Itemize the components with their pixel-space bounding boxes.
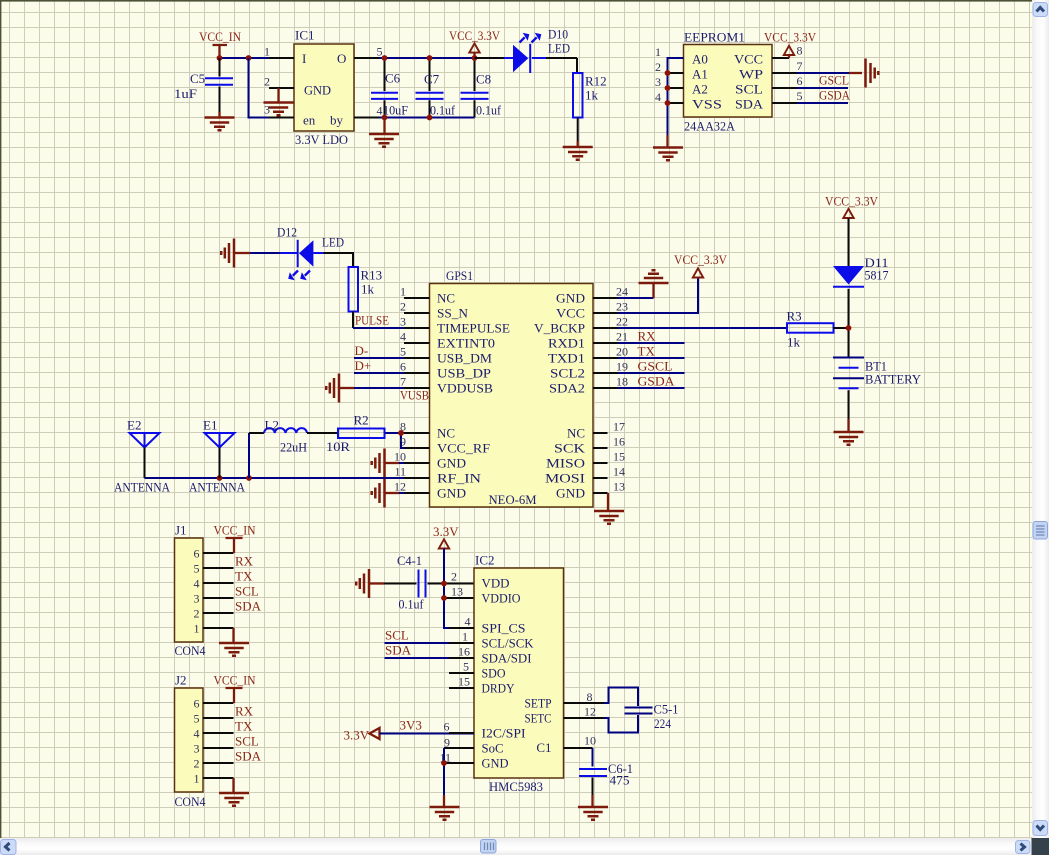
svg-text:VDD: VDD <box>482 576 510 591</box>
svg-text:5: 5 <box>377 45 383 59</box>
svg-text:SDA: SDA <box>235 599 262 614</box>
svg-text:1k: 1k <box>361 282 375 297</box>
ground under gps pin13 <box>594 493 624 524</box>
svg-text:22: 22 <box>616 315 628 329</box>
junction <box>246 55 252 61</box>
svg-text:8: 8 <box>587 690 593 704</box>
svg-text:SPI_CS: SPI_CS <box>482 621 526 636</box>
junction <box>398 430 404 436</box>
junction <box>665 70 671 76</box>
wire pin13 <box>444 597 474 599</box>
svg-text:D12: D12 <box>277 225 297 240</box>
junction <box>427 55 433 61</box>
svg-text:LED: LED <box>322 235 344 250</box>
junction <box>217 55 223 61</box>
svg-text:TIMEPULSE: TIMEPULSE <box>437 321 510 336</box>
capacitor C6 <box>371 58 408 118</box>
svg-text:5: 5 <box>400 345 406 359</box>
ground under R12 <box>563 141 593 160</box>
svg-text:VCC_3.3V: VCC_3.3V <box>674 252 728 267</box>
pin 7 WP wire <box>772 59 849 73</box>
svg-text:I2C/SPI: I2C/SPI <box>482 726 526 741</box>
svg-text:475: 475 <box>610 773 630 788</box>
net label GSDA <box>618 374 685 389</box>
svg-text:1: 1 <box>400 285 406 299</box>
connector J2 body <box>175 673 206 810</box>
power flag VCC_3.3V battery <box>825 194 879 267</box>
ground under C5 <box>205 112 235 130</box>
svg-text:2: 2 <box>194 757 200 771</box>
wire bottom rail <box>354 117 475 119</box>
op IC1 regulator body <box>294 28 354 148</box>
eeprom EEPROM1 body <box>684 30 773 134</box>
svg-text:SoC: SoC <box>482 741 504 756</box>
svg-text:IC2: IC2 <box>475 553 495 568</box>
svg-text:12: 12 <box>394 480 406 494</box>
svg-text:VDDIO: VDDIO <box>482 591 521 606</box>
junction <box>441 595 447 601</box>
svg-text:3: 3 <box>194 592 200 606</box>
capacitor C4-1 <box>384 553 474 612</box>
svg-text:12: 12 <box>584 705 596 719</box>
svg-text:EEPROM1: EEPROM1 <box>684 30 745 45</box>
svg-text:D10: D10 <box>548 27 568 42</box>
svg-text:RX: RX <box>638 329 657 344</box>
net label SCL <box>385 628 475 644</box>
antenna E1 <box>189 418 246 495</box>
svg-text:23: 23 <box>616 300 628 314</box>
svg-text:0.1uf: 0.1uf <box>399 597 425 612</box>
inductor L2 <box>249 418 338 479</box>
svg-text:GND: GND <box>556 291 585 306</box>
svg-text:HMC5983: HMC5983 <box>489 779 543 794</box>
junction <box>846 325 852 331</box>
svg-text:3.3V: 3.3V <box>433 524 459 539</box>
capacitor C8 <box>461 58 502 118</box>
svg-text:SETP: SETP <box>525 696 552 711</box>
ground above gps pin24 <box>618 270 669 298</box>
power arrow 3.3V / 3V3 <box>344 718 475 743</box>
svg-text:1k: 1k <box>787 335 801 350</box>
svg-text:VCC_3.3V: VCC_3.3V <box>825 194 879 209</box>
svg-text:VDDUSB: VDDUSB <box>437 381 493 396</box>
svg-text:GSDA: GSDA <box>638 374 676 389</box>
svg-text:GSCL: GSCL <box>638 359 673 374</box>
svg-text:10: 10 <box>584 734 596 748</box>
svg-text:PULSE: PULSE <box>355 313 389 328</box>
svg-text:5817: 5817 <box>865 268 889 283</box>
pin 3 <box>655 75 684 89</box>
resistor R2 <box>326 413 385 455</box>
junction <box>472 55 478 61</box>
svg-text:WP: WP <box>739 67 763 82</box>
svg-text:SDA: SDA <box>385 643 412 658</box>
svg-text:D-: D- <box>355 343 369 358</box>
wire to en pin <box>249 58 295 118</box>
svg-text:20: 20 <box>616 345 628 359</box>
svg-text:6: 6 <box>400 360 406 374</box>
svg-text:VCC: VCC <box>734 52 763 67</box>
resistor R3 <box>787 309 849 350</box>
pin 4 <box>354 104 383 118</box>
resistor R13 <box>349 267 383 328</box>
svg-text:NEO-6M: NEO-6M <box>489 492 537 507</box>
svg-text:GND: GND <box>556 486 585 501</box>
junction <box>217 475 223 481</box>
svg-text:7: 7 <box>797 59 803 73</box>
svg-text:RXD1: RXD1 <box>548 336 585 351</box>
svg-text:en: en <box>303 113 316 128</box>
ground under battery <box>834 419 864 445</box>
svg-text:RF_IN: RF_IN <box>437 471 482 486</box>
svg-text:CON4: CON4 <box>175 643 206 658</box>
junction <box>665 85 671 91</box>
j1 pin stubs <box>203 553 234 628</box>
gps left pin stubs <box>404 298 430 493</box>
net label D+ <box>354 358 430 373</box>
module GPS1 body <box>430 268 594 507</box>
wire to D12 <box>250 252 280 254</box>
capacitor C7 <box>416 58 456 118</box>
svg-text:8: 8 <box>797 44 803 58</box>
svg-text:V_BCKP: V_BCKP <box>534 321 585 336</box>
ground under ic2 <box>430 795 460 820</box>
svg-text:VCC: VCC <box>556 306 585 321</box>
ground under j2 <box>219 778 249 806</box>
wire rail to VCC3.3 <box>354 57 475 59</box>
svg-text:VCC_IN: VCC_IN <box>214 523 257 538</box>
svg-text:VCC_RF: VCC_RF <box>437 441 490 456</box>
svg-text:6: 6 <box>194 697 200 711</box>
svg-text:10uF: 10uF <box>383 103 408 118</box>
svg-text:A1: A1 <box>692 67 708 82</box>
svg-text:16: 16 <box>613 435 625 449</box>
ic2 right pin numbers <box>584 690 596 748</box>
svg-text:J2: J2 <box>175 673 187 688</box>
svg-text:3: 3 <box>400 315 406 329</box>
wire PULSE to pin3 <box>353 327 430 329</box>
svg-text:SDA: SDA <box>235 749 262 764</box>
svg-text:TX: TX <box>638 344 656 359</box>
svg-text:R12: R12 <box>585 74 607 89</box>
svg-text:RX: RX <box>235 554 254 569</box>
svg-text:11: 11 <box>394 465 406 479</box>
svg-text:LED: LED <box>548 41 570 56</box>
junction <box>427 115 433 121</box>
svg-text:TXD1: TXD1 <box>548 351 585 366</box>
svg-text:13: 13 <box>613 480 625 494</box>
pin 4 <box>655 90 684 104</box>
svg-text:NC: NC <box>437 426 455 441</box>
ground on pin 2 <box>264 88 294 115</box>
svg-text:10: 10 <box>394 450 406 464</box>
svg-text:5: 5 <box>463 660 469 674</box>
svg-text:GPS1: GPS1 <box>446 268 473 283</box>
svg-text:4: 4 <box>400 330 406 344</box>
svg-text:24: 24 <box>616 285 628 299</box>
svg-text:TX: TX <box>235 569 253 584</box>
svg-text:1: 1 <box>194 772 200 786</box>
pin 3 <box>264 103 294 118</box>
svg-text:5: 5 <box>194 562 200 576</box>
svg-text:GND: GND <box>304 83 331 98</box>
junction <box>441 581 447 587</box>
net label D- <box>354 343 430 358</box>
svg-text:C6: C6 <box>385 71 401 86</box>
svg-text:3: 3 <box>655 75 661 89</box>
junction <box>382 115 388 121</box>
svg-text:VCC_3.3V: VCC_3.3V <box>449 28 501 43</box>
svg-text:7: 7 <box>400 375 406 389</box>
svg-text:2: 2 <box>264 75 270 89</box>
svg-text:SDA: SDA <box>735 97 764 112</box>
svg-text:15: 15 <box>458 675 470 689</box>
svg-text:C7: C7 <box>424 72 440 87</box>
svg-text:RX: RX <box>235 704 254 719</box>
capacitor C5 <box>174 58 233 112</box>
svg-text:SCL2: SCL2 <box>550 366 585 381</box>
power flag VCC_3.3V <box>449 28 501 58</box>
svg-text:VCC_IN: VCC_IN <box>214 673 257 688</box>
svg-text:1uF: 1uF <box>174 86 197 101</box>
svg-text:C8: C8 <box>476 72 491 87</box>
svg-text:3.3V LDO: 3.3V LDO <box>295 132 348 147</box>
svg-text:MOSI: MOSI <box>545 471 585 486</box>
pin 2 <box>655 60 684 74</box>
LED D12 <box>277 225 353 281</box>
battery BT1 <box>833 358 922 420</box>
ground under j1 <box>219 628 249 656</box>
svg-text:3V3: 3V3 <box>400 718 422 733</box>
svg-text:4: 4 <box>377 104 383 118</box>
svg-text:9: 9 <box>400 435 406 449</box>
svg-text:A0: A0 <box>692 52 708 67</box>
svg-text:GSCL: GSCL <box>819 73 849 88</box>
svg-text:1k: 1k <box>585 88 599 103</box>
net label TX <box>618 344 685 359</box>
ground under eeprom <box>653 135 683 160</box>
svg-text:224: 224 <box>654 716 671 731</box>
svg-text:8: 8 <box>400 420 406 434</box>
resistor R12 <box>573 73 607 141</box>
j2 pin stubs <box>203 703 234 778</box>
svg-text:ANTENNA: ANTENNA <box>189 480 246 495</box>
svg-text:5: 5 <box>194 712 200 726</box>
svg-text:1: 1 <box>194 622 200 636</box>
net label RX <box>618 329 685 344</box>
svg-text:2: 2 <box>194 607 200 621</box>
wire SoC/GND to ground <box>444 748 474 795</box>
svg-text:22uH: 22uH <box>280 440 307 455</box>
svg-text:4: 4 <box>194 577 200 591</box>
svg-text:R3: R3 <box>787 309 802 324</box>
svg-text:1: 1 <box>655 45 661 59</box>
svg-text:VCC_IN: VCC_IN <box>199 29 242 44</box>
svg-text:IC1: IC1 <box>295 28 315 43</box>
svg-text:2: 2 <box>655 60 661 74</box>
svg-text:2: 2 <box>400 300 406 314</box>
svg-text:9: 9 <box>444 736 450 750</box>
pin 5 SDA wire <box>772 88 851 104</box>
svg-text:13: 13 <box>451 585 463 599</box>
junction <box>441 760 447 766</box>
svg-text:1: 1 <box>462 630 468 644</box>
svg-text:VCC_3.3V: VCC_3.3V <box>764 30 817 45</box>
svg-text:SDA2: SDA2 <box>549 381 585 396</box>
svg-text:6: 6 <box>444 720 450 734</box>
wire top rail <box>220 57 295 59</box>
svg-text:11: 11 <box>439 751 451 765</box>
svg-text:15: 15 <box>613 450 625 464</box>
svg-text:NC: NC <box>567 426 585 441</box>
svg-text:C5: C5 <box>190 71 205 86</box>
svg-text:GND: GND <box>437 486 466 501</box>
ground left of C4-1 <box>356 569 384 598</box>
capacitor C5-1 <box>625 702 679 732</box>
ic2 left stubs <box>449 628 474 688</box>
svg-text:24AA32A: 24AA32A <box>684 119 736 134</box>
svg-text:MISO: MISO <box>546 456 585 471</box>
svg-text:SS_N: SS_N <box>437 306 469 321</box>
svg-text:R13: R13 <box>361 268 383 283</box>
wire left bus <box>668 58 684 135</box>
wire V_BCKP to R3 <box>618 327 787 329</box>
junction <box>382 55 388 61</box>
power flag 3.3V <box>433 524 474 628</box>
pin 2 <box>264 75 294 89</box>
svg-text:SCL/SCK: SCL/SCK <box>482 636 535 651</box>
svg-text:C5-1: C5-1 <box>654 702 679 717</box>
earth ground on WP <box>849 59 878 88</box>
antenna E2 <box>114 418 171 495</box>
net label SDA <box>385 643 475 659</box>
svg-text:5: 5 <box>797 89 803 103</box>
svg-text:J1: J1 <box>175 523 187 538</box>
svg-text:0.1uf: 0.1uf <box>430 103 456 118</box>
svg-text:SCL: SCL <box>235 584 259 599</box>
pin 1 <box>264 45 294 59</box>
svg-text:4: 4 <box>194 727 200 741</box>
svg-text:4: 4 <box>655 90 661 104</box>
svg-text:3.3V: 3.3V <box>344 728 370 743</box>
svg-text:O: O <box>337 51 346 66</box>
wire R2 to pin8 <box>385 432 430 434</box>
svg-text:18: 18 <box>616 375 628 389</box>
svg-text:SCK: SCK <box>554 441 586 456</box>
svg-text:4: 4 <box>465 615 471 629</box>
svg-text:21: 21 <box>616 330 628 344</box>
svg-text:USB_DP: USB_DP <box>437 366 491 381</box>
svg-text:SDO: SDO <box>482 666 506 681</box>
ground left of D12 <box>221 239 250 268</box>
pin 5 <box>354 45 383 59</box>
setp/setc loop wires <box>564 688 639 733</box>
power flag VCC_IN <box>199 29 242 58</box>
svg-text:I: I <box>302 51 306 66</box>
svg-text:3: 3 <box>264 103 270 117</box>
gps left pin numbers <box>394 285 406 494</box>
gps right pin numbers <box>613 285 628 494</box>
net label GSCL <box>618 359 685 374</box>
ground under C6-1 <box>578 795 608 820</box>
svg-text:TX: TX <box>235 719 253 734</box>
svg-text:16: 16 <box>458 645 470 659</box>
svg-text:GND: GND <box>482 756 509 771</box>
power flag VCC_IN j2 <box>214 673 257 704</box>
svg-text:6: 6 <box>194 547 200 561</box>
svg-text:SCL: SCL <box>235 734 259 749</box>
svg-text:VUSB: VUSB <box>400 388 429 403</box>
compass IC2 body <box>474 553 564 795</box>
svg-text:E2: E2 <box>127 418 141 433</box>
power flag VCC_IN j1 <box>214 523 257 554</box>
connector J1 body <box>175 523 206 659</box>
svg-text:1: 1 <box>264 45 270 59</box>
svg-text:C1: C1 <box>536 740 551 755</box>
svg-text:ANTENNA: ANTENNA <box>114 480 171 495</box>
svg-text:3: 3 <box>194 742 200 756</box>
svg-text:SETC: SETC <box>525 711 552 726</box>
svg-text:SCL: SCL <box>735 82 763 97</box>
pin 6 SCL wire <box>772 73 849 89</box>
svg-text:SDA/SDI: SDA/SDI <box>482 651 532 666</box>
svg-text:10R: 10R <box>326 439 350 454</box>
junction <box>246 475 252 481</box>
power flag VCC_3.3V eeprom <box>764 30 817 59</box>
ground on VDDUSB <box>326 374 429 403</box>
ground on gps pin10 <box>372 449 430 478</box>
pin stub overlays <box>354 58 618 733</box>
capacitor C6-1 <box>564 748 634 795</box>
antenna trunk wire <box>145 477 430 479</box>
svg-text:by: by <box>330 113 344 128</box>
svg-text:2: 2 <box>451 570 457 584</box>
svg-text:C4-1: C4-1 <box>397 553 422 568</box>
svg-text:CON4: CON4 <box>175 794 206 809</box>
svg-text:0.1uf: 0.1uf <box>476 103 502 118</box>
svg-text:R2: R2 <box>354 413 369 428</box>
ground on gps pin12 <box>372 479 430 508</box>
LED D10 <box>475 27 578 74</box>
svg-text:SCL: SCL <box>385 628 409 643</box>
svg-text:GND: GND <box>437 456 466 471</box>
svg-text:BATTERY: BATTERY <box>865 372 922 387</box>
svg-text:DRDY: DRDY <box>482 681 516 696</box>
svg-text:A2: A2 <box>692 82 708 97</box>
svg-text:14: 14 <box>613 465 625 479</box>
svg-text:USB_DM: USB_DM <box>437 351 492 366</box>
junction <box>665 100 671 106</box>
ground under C6 <box>369 118 399 147</box>
svg-text:NC: NC <box>437 291 455 306</box>
diode D11 <box>833 255 889 357</box>
svg-text:EXTINT0: EXTINT0 <box>437 336 495 351</box>
gps right pin stubs <box>593 298 618 493</box>
svg-text:19: 19 <box>616 360 628 374</box>
svg-text:17: 17 <box>613 420 625 434</box>
wire pin8 to pin9 <box>401 433 430 448</box>
ic2 left pin numbers <box>439 570 470 765</box>
svg-text:VSS: VSS <box>692 97 722 112</box>
svg-text:GSDA: GSDA <box>819 88 851 103</box>
svg-text:L2: L2 <box>265 418 279 433</box>
power flag VCC_3.3V gps <box>618 252 728 313</box>
svg-text:D+: D+ <box>355 358 372 373</box>
svg-text:6: 6 <box>797 74 803 88</box>
svg-text:E1: E1 <box>203 418 217 433</box>
